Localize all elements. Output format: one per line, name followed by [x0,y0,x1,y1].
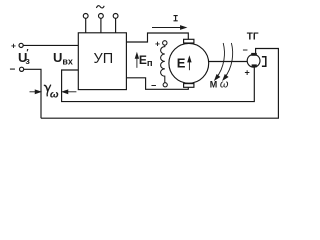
supply stub 2 [100,18,102,33]
field terminal plus circle [163,41,167,45]
svg-text:Uвх: Uвх [53,50,73,67]
arrow torque M arc [224,43,232,78]
svg-text:ТГ: ТГ [247,31,259,42]
arrow motor emf E up [188,59,190,70]
svg-text:−: − [151,81,156,91]
supply circle 1 [83,14,88,19]
motor armature circle M [169,43,209,83]
arrow gamma right annotation [67,91,76,93]
tachogenerator circle TG [247,54,260,67]
field terminal minus circle [163,83,167,87]
svg-text:Еп: Еп [139,53,153,69]
svg-text:+: + [155,38,160,48]
wire feedback into UP [62,67,255,101]
wire bottom output [126,78,188,90]
svg-text:ω: ω [50,88,59,100]
label I current [174,16,178,21]
svg-text:−: − [243,45,248,55]
shaft wire [209,61,248,63]
svg-text:ω: ω [220,79,229,91]
motor brush top [184,39,194,43]
junction blob tg top [251,53,257,56]
supply stub 3 [115,18,117,33]
label tilde supply [96,6,104,8]
svg-text:+: + [245,67,250,77]
tg brush bracket [262,57,266,67]
svg-text:УП: УП [94,51,114,67]
field winding coil [161,45,165,82]
wire [24,69,41,118]
terminal plus input [19,43,23,47]
wire [23,44,78,46]
supply circle 3 [113,14,118,19]
box U P amplifier [78,33,126,90]
terminal minus input [20,67,24,71]
arrow rotation omega arc [216,43,224,78]
junction blob tg bottom [252,64,257,67]
arrow EMF Ep up [136,56,138,68]
label gamma omega [44,85,51,97]
svg-text:+: + [11,40,16,50]
motor brush bottom [184,84,194,88]
wire top output [126,33,188,42]
supply circle 2 [99,14,104,19]
wire bottom outer [41,49,278,119]
svg-text:U′з: U′з [18,48,30,67]
arrow current I [152,27,182,29]
svg-text:E: E [177,56,186,71]
svg-text:М: М [210,80,218,90]
supply stub 1 [85,18,87,33]
svg-text:−: − [10,65,16,76]
arrow gamma left annotation [30,91,37,93]
